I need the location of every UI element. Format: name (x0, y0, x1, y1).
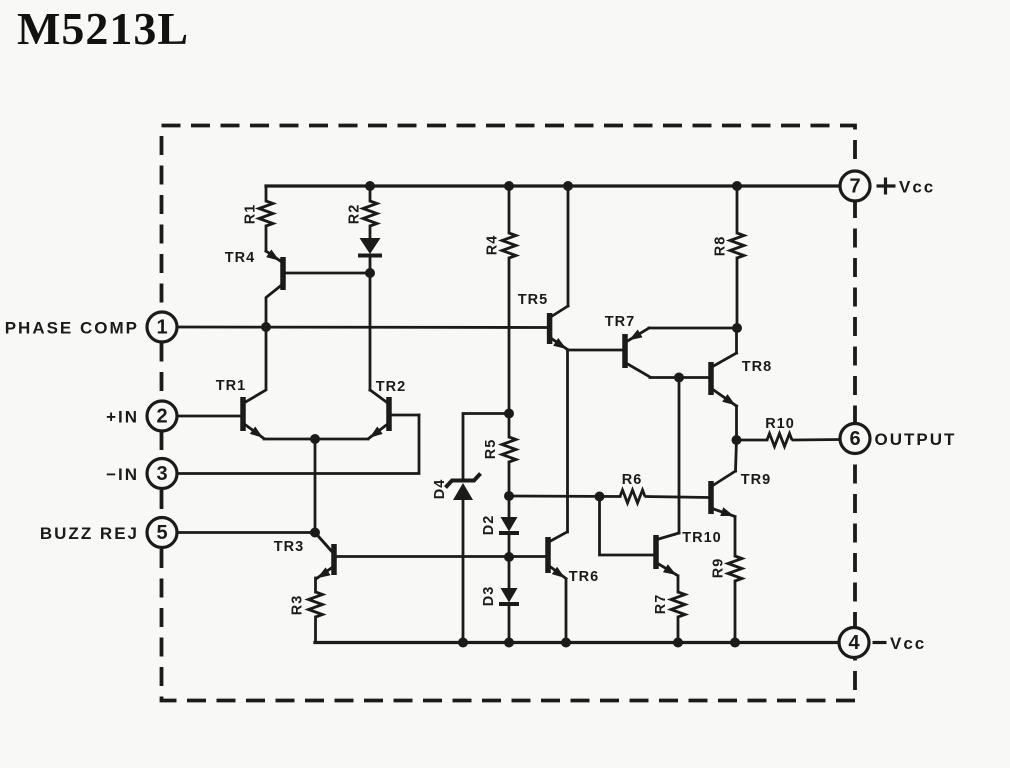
wire R7 bottom to rail (677, 617, 680, 643)
svg-text:R7: R7 (653, 594, 669, 615)
wire phase comp line pin1 to TR5 base (177, 326, 548, 329)
resistor R5 (483, 437, 516, 462)
wire TR9 collector up to output node (736, 440, 737, 471)
wire TR7 collector to TR8 base (650, 376, 709, 379)
node D4 anode rail junction (458, 638, 468, 648)
wire +Vcc top rail (266, 184, 841, 187)
node TR4 base / D1 junction (365, 268, 375, 278)
wire R9 bottom to rail (734, 581, 737, 643)
pin 5 BUZZ REJ (147, 518, 177, 548)
svg-text:1: 1 (156, 317, 167, 339)
svg-text:7: 7 (849, 176, 860, 198)
svg-text:TR2: TR2 (376, 379, 406, 395)
svg-text:5: 5 (156, 522, 167, 544)
svg-text:3: 3 (156, 463, 167, 485)
resistor R7 (653, 592, 685, 617)
svg-text:6: 6 (849, 428, 860, 450)
node output/R10/TR8/TR9 junction (732, 435, 742, 445)
wire R5 bottom to D2 (508, 462, 511, 517)
wire TR8 base node down to TR10 collector (678, 378, 681, 534)
wire buzz node to TR3 base (315, 533, 332, 552)
wire -IN pin3 to TR2 base column (177, 415, 420, 474)
pin 7 +Vcc (840, 171, 870, 201)
wire R6 node down to TR10 base (600, 497, 654, 556)
wire node D to D3 (508, 557, 511, 588)
wire R6 rail D2-top to TR9 base (509, 495, 620, 498)
resistor R10 (765, 416, 795, 447)
node D3 rail junction (504, 638, 514, 648)
pin 2 +IN (147, 401, 177, 431)
wire R3 bottom to rail (314, 617, 317, 643)
diode D1 (358, 238, 382, 256)
svg-text:R8: R8 (713, 236, 729, 257)
node D2/D3/TR3-collector junction (504, 552, 514, 562)
wire TR8 emitter to output node (735, 406, 738, 440)
wire R4 bottom to node C (508, 258, 511, 437)
node phase-comp/TR4/TR1 junction (261, 322, 271, 332)
label -Vcc (873, 634, 927, 653)
transistor TR2 (369, 379, 407, 439)
svg-text:TR4: TR4 (225, 250, 255, 266)
node R7 rail junction (673, 638, 683, 648)
svg-text:Vcc: Vcc (890, 634, 926, 653)
resistor R1 (243, 201, 274, 226)
diode D2 (481, 515, 519, 536)
wire R8 top feed (736, 186, 739, 233)
pin 6 OUTPUT (840, 424, 870, 454)
resistor R9 (711, 556, 743, 581)
wire TR10 emitter to R7 (677, 576, 680, 592)
node buzz-rej junction (310, 528, 320, 538)
wire R6 right to TR9 base (646, 497, 709, 498)
wire output node to R10 (737, 439, 767, 442)
wire TR9 emitter to R9 (734, 517, 737, 556)
svg-text:R4: R4 (485, 235, 501, 256)
svg-text:BUZZ REJ: BUZZ REJ (40, 524, 139, 543)
node R5/D2/R6 junction (504, 491, 514, 501)
wire TR8 collector up (735, 328, 738, 353)
transistor TR6 (545, 532, 599, 585)
svg-text:R10: R10 (765, 416, 795, 432)
wire R10 to pin6 (793, 438, 841, 441)
transistor TR4 (PNP) (225, 250, 370, 328)
wire D4 anode to rail (462, 500, 465, 643)
svg-text:TR5: TR5 (518, 292, 548, 308)
svg-text:R6: R6 (622, 472, 643, 488)
wire R1 top feed (265, 186, 268, 201)
svg-text:OUTPUT: OUTPUT (875, 430, 957, 449)
wire TR5 emitter down to TR6 collector (566, 350, 569, 532)
wire D1 cathode to node B (369, 257, 372, 273)
svg-text:TR10: TR10 (682, 530, 721, 546)
node R6/TR10-base junction (595, 492, 605, 502)
transistor TR1 (216, 327, 266, 439)
svg-text:D3: D3 (481, 586, 497, 607)
node R8/TR7/TR8 junction (732, 323, 742, 333)
svg-text:D2: D2 (481, 515, 497, 536)
wire BUZZ REJ pin5 to node (177, 531, 316, 534)
IC boundary dashed box (162, 126, 856, 701)
svg-text:Vcc: Vcc (899, 178, 935, 197)
node R4 top rail junction (504, 181, 514, 191)
wire D2 cathode to node D (508, 534, 511, 557)
wire TR6 emitter to rail (565, 579, 568, 643)
svg-text:−IN: −IN (106, 465, 139, 484)
wire R1 bottom to TR4 emitter (265, 226, 268, 251)
resistor R2 (347, 201, 378, 226)
svg-text:TR6: TR6 (569, 569, 599, 585)
node TR5 collector rail junction (563, 181, 573, 191)
wire TR7 emitter line to R8 bottom (649, 327, 737, 330)
zener diode D4 (432, 474, 481, 501)
wire R8 bottom (736, 258, 739, 328)
diode D3 (481, 586, 519, 607)
svg-text:TR9: TR9 (741, 472, 771, 488)
svg-text:R3: R3 (290, 595, 306, 616)
wire TR2 base segment (392, 414, 420, 417)
pin 1 PHASE COMP (147, 312, 177, 342)
svg-text:R2: R2 (347, 204, 363, 225)
svg-text:+IN: +IN (106, 408, 139, 427)
transistor TR8 (708, 353, 772, 406)
svg-text:2: 2 (156, 406, 167, 428)
svg-text:R1: R1 (243, 204, 259, 225)
wire node C to D4 branch (463, 414, 509, 481)
node R2 top rail junction (365, 181, 375, 191)
node TR1-TR2 emitter junction (310, 434, 320, 444)
svg-text:D4: D4 (432, 479, 448, 500)
resistor R6 (620, 472, 645, 503)
resistor R8 (713, 233, 745, 258)
transistor TR5 (518, 292, 568, 350)
svg-text:PHASE COMP: PHASE COMP (5, 319, 139, 338)
pin 4 -Vcc (839, 628, 869, 658)
label +Vcc (877, 178, 936, 197)
svg-text:TR1: TR1 (216, 378, 246, 394)
wire D3 cathode to rail (508, 605, 511, 643)
transistor TR3 (274, 533, 337, 579)
wire TR5 emitter to TR7 base (568, 349, 623, 352)
node R4/R5/D4 junction (504, 409, 514, 419)
wire node B down to TR2 collector (369, 273, 372, 390)
node TR6 emitter rail junction (561, 638, 571, 648)
pin 3 -IN (147, 459, 177, 489)
resistor R4 (485, 233, 517, 258)
wire +IN pin2 to TR1 base (177, 415, 241, 418)
resistor R3 (290, 592, 323, 617)
wire TR3 emitter to R3 (314, 578, 317, 592)
wire TR3 collector line to TR6 base (337, 555, 546, 558)
wire TR1-TR2 emitter bus (264, 438, 368, 441)
wire bottom -Vcc rail (315, 641, 841, 644)
wire TR5 collector to rail (567, 186, 570, 306)
node TR7-collector/TR8-base junction (674, 373, 684, 383)
node R8 top rail junction (732, 181, 742, 191)
transistor TR9 (708, 471, 771, 517)
svg-text:4: 4 (848, 632, 860, 654)
transistor TR7 (PNP) (605, 314, 650, 377)
svg-text:TR7: TR7 (605, 314, 635, 330)
wire emitter bus down to buzz node (314, 439, 317, 533)
node R9 rail junction (730, 638, 740, 648)
svg-text:M5213L: M5213L (17, 3, 189, 54)
wire R2 top feed (369, 186, 372, 201)
wire R4 top feed (508, 186, 511, 233)
svg-text:TR3: TR3 (274, 539, 304, 555)
wire R2 bottom to diode D1 (369, 226, 372, 238)
svg-text:R5: R5 (483, 439, 499, 460)
svg-text:R9: R9 (711, 558, 727, 579)
transistor TR10 (653, 530, 721, 576)
svg-text:TR8: TR8 (742, 359, 772, 375)
